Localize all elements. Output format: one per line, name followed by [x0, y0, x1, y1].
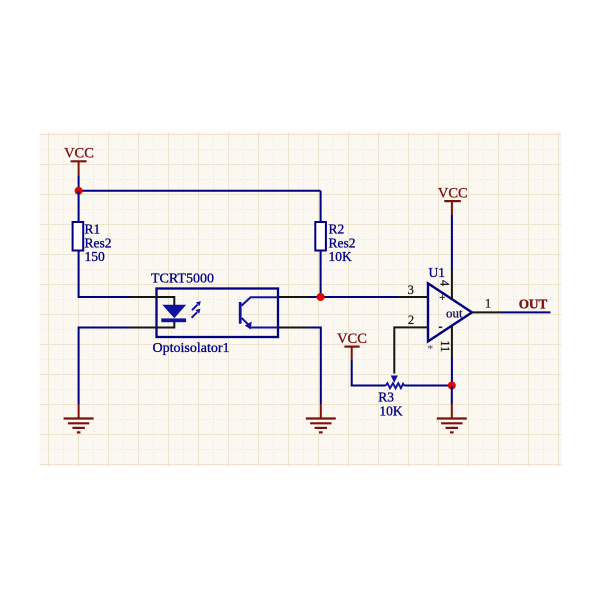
svg-text:U1: U1 — [429, 265, 446, 280]
power port VCC (above op-amp) — [438, 185, 468, 215]
sheet background — [40, 132, 562, 467]
wire top wire down to R2 — [320, 191, 322, 222]
junction (VCC / R1 / R2 net) — [75, 187, 83, 195]
junction (pin11 / R3 / ground net) — [448, 382, 456, 390]
wire junction to ground — [451, 386, 453, 405]
svg-text:R2: R2 — [329, 222, 345, 237]
ground (right) — [437, 419, 467, 433]
pin 4 power (black stub) — [451, 270, 453, 300]
pin anode (black) — [130, 297, 174, 305]
svg-text:3: 3 — [408, 283, 414, 297]
op-amp U1 — [428, 265, 472, 341]
svg-text:150: 150 — [85, 249, 106, 264]
ground stub (left) — [78, 404, 80, 419]
wire cathode to ground — [79, 328, 130, 405]
wire collector node to op-amp pin 3 — [310, 296, 398, 298]
svg-text:2: 2 — [408, 313, 414, 327]
wire pin 2 to R3 wiper — [394, 327, 398, 373]
svg-text:R1: R1 — [85, 222, 101, 237]
wire junction to R1 — [78, 191, 80, 222]
svg-text:out: out — [446, 306, 463, 321]
svg-text:VCC: VCC — [438, 185, 468, 201]
junction (collector / R2 / pin3 net) — [317, 293, 325, 301]
pin emitter (black) — [278, 327, 310, 329]
wire VCC stub to junction — [78, 176, 80, 191]
svg-text:*: * — [427, 342, 433, 356]
svg-text:VCC: VCC — [64, 146, 94, 162]
svg-text:10K: 10K — [329, 249, 353, 264]
svg-text:+: + — [439, 292, 445, 304]
svg-text:1: 1 — [485, 296, 491, 310]
ground stub (middle) — [320, 404, 322, 419]
ground stub (right) — [451, 404, 453, 419]
ground (left) — [64, 419, 94, 433]
pin 1 output (black stub) — [472, 311, 502, 313]
wire emitter to ground — [310, 328, 321, 405]
potentiometer R3 — [378, 376, 404, 419]
wire VCC to R3 left — [352, 360, 386, 386]
wire pin 11 to junction — [451, 357, 453, 386]
svg-text:R3: R3 — [378, 390, 394, 405]
resistor R2 — [315, 222, 355, 265]
optoisolator Optoisolator1 (TCRT5000) — [151, 272, 278, 356]
phototransistor of optoisolator — [239, 297, 278, 329]
svg-text:VCC: VCC — [337, 331, 367, 347]
svg-text:4: 4 — [438, 280, 452, 287]
svg-text:Res2: Res2 — [329, 235, 356, 250]
power port VCC (top left) — [64, 146, 94, 177]
LED of optoisolator — [161, 305, 186, 322]
svg-text:TCRT5000: TCRT5000 — [151, 272, 214, 287]
wire output to net label — [502, 311, 551, 313]
svg-text:11: 11 — [438, 340, 452, 352]
pin 2 (black stub) — [398, 326, 428, 328]
svg-text:OUT: OUT — [519, 296, 548, 311]
pin 3 (black stub) — [398, 296, 428, 298]
pin collector (black) — [278, 296, 310, 298]
svg-text:Optoisolator1: Optoisolator1 — [153, 341, 230, 356]
wire top horizontal — [79, 190, 321, 192]
svg-text:10K: 10K — [379, 404, 403, 419]
wire R2 bottom to collector node — [320, 251, 322, 298]
power port VCC (left of R3) — [337, 331, 367, 360]
wire VCC to pin 4 — [451, 215, 453, 270]
svg-text:Res2: Res2 — [85, 235, 112, 250]
resistor R1 — [73, 222, 112, 265]
emission arrow 1 — [192, 301, 201, 310]
ground (middle) — [306, 419, 336, 433]
wire R3 right to junction — [404, 385, 452, 387]
emission arrow 2 — [192, 309, 201, 318]
pin 11 power (black stub) — [451, 326, 453, 358]
pin cathode (black) — [130, 322, 174, 328]
wire R1 bottom to LED anode row — [79, 251, 130, 298]
